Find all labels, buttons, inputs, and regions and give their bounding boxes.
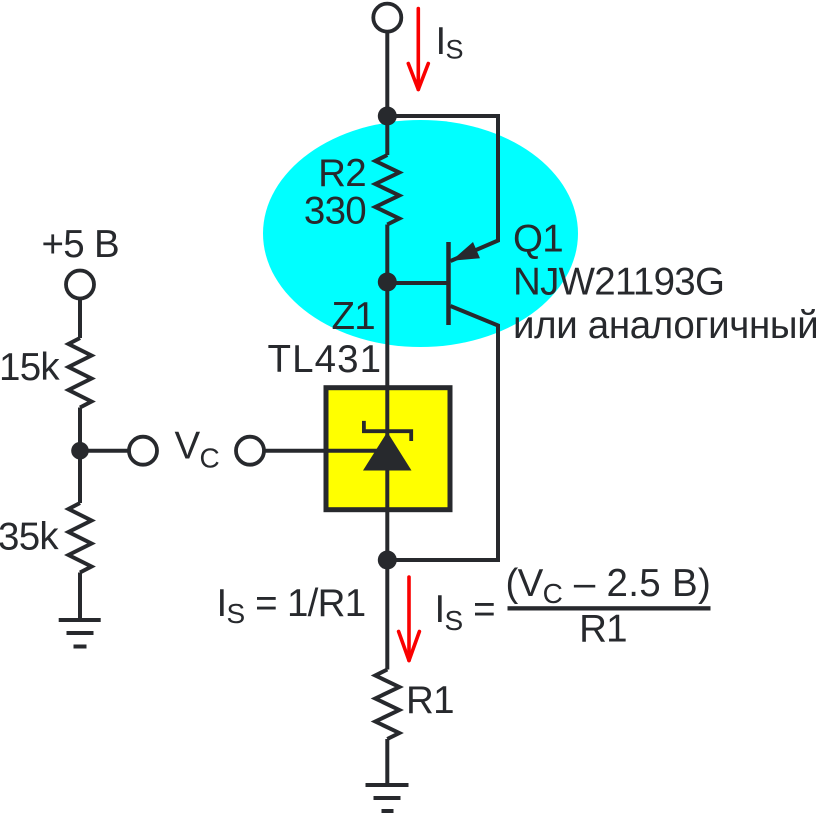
svg-text:+5 В: +5 В bbox=[42, 223, 119, 266]
svg-text:330: 330 bbox=[304, 190, 366, 233]
svg-text:Z1: Z1 bbox=[331, 295, 375, 338]
svg-text:R1: R1 bbox=[406, 679, 454, 722]
svg-text:NJW21193G: NJW21193G bbox=[513, 261, 724, 304]
svg-text:Q1: Q1 bbox=[513, 218, 563, 261]
svg-text:R2: R2 bbox=[318, 152, 366, 195]
svg-text:или аналогичный: или аналогичный bbox=[513, 304, 816, 347]
svg-text:IS =: IS = bbox=[435, 588, 495, 636]
svg-text:R1: R1 bbox=[579, 608, 627, 651]
svg-text:15k: 15k bbox=[0, 346, 60, 389]
svg-text:35k: 35k bbox=[0, 516, 59, 559]
svg-text:(VC – 2.5 В): (VC – 2.5 В) bbox=[506, 562, 712, 609]
svg-text:TL431: TL431 bbox=[268, 338, 383, 381]
